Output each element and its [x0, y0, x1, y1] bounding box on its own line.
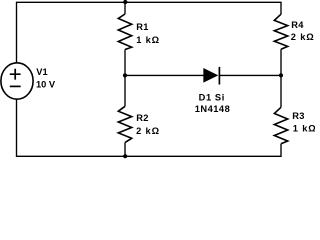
resistor R2 [118, 106, 131, 142]
V1 minus sign [10, 85, 21, 87]
resistor R3 [274, 107, 287, 144]
node middle left junction [123, 73, 127, 77]
svg-text:D1 Si: D1 Si [199, 92, 225, 102]
svg-text:V1: V1 [36, 67, 47, 77]
svg-text:1 kΩ: 1 kΩ [136, 35, 160, 45]
wire R4 stub bottom [280, 49, 282, 75]
resistor R4 [274, 14, 287, 49]
svg-text:R1: R1 [136, 22, 148, 32]
wire middle left [125, 74, 204, 76]
diode D1 cathode bar [218, 67, 220, 85]
node bottom junction [123, 154, 127, 158]
svg-text:2 kΩ: 2 kΩ [136, 126, 160, 136]
wire top rail [17, 2, 282, 63]
wire R1 stub bottom [124, 50, 126, 76]
node middle right junction [279, 73, 283, 77]
V1 plus sign [10, 69, 21, 80]
svg-text:2 kΩ: 2 kΩ [291, 32, 315, 42]
wire R3 stub top [280, 75, 282, 107]
wire R2 stub bottom [124, 143, 126, 157]
svg-text:R3: R3 [292, 111, 304, 121]
wire R1 stub top [124, 2, 126, 14]
wire middle right [219, 74, 281, 76]
voltage source V1 [1, 63, 33, 99]
svg-text:R2: R2 [136, 113, 148, 123]
svg-text:1 kΩ: 1 kΩ [293, 124, 315, 134]
wire R2 stub top [124, 75, 126, 106]
resistor R1 [118, 14, 131, 50]
node top junction [123, 0, 127, 4]
wire bottom rail [17, 99, 282, 156]
svg-text:10 V: 10 V [36, 80, 56, 90]
svg-text:R4: R4 [291, 20, 304, 30]
diode D1 triangle [204, 69, 218, 83]
svg-text:1N4148: 1N4148 [195, 104, 231, 114]
